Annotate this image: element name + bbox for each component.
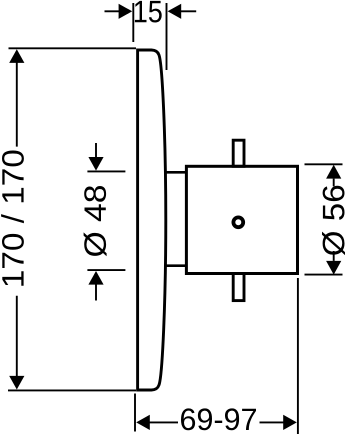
dimension 15: right arrow xyxy=(168,4,197,19)
dimension diameter 48: bottom tick xyxy=(87,269,125,271)
dimension 15: left extension line xyxy=(132,3,134,42)
handle set screw xyxy=(233,217,243,227)
dimension 15: right extension line xyxy=(166,3,168,70)
dimension 69-97: left arrow with line xyxy=(136,415,178,430)
dimension 69-97: right arrow with line xyxy=(260,415,297,430)
sleeve bottom line xyxy=(165,264,187,267)
dimension diameter 48: label (rotated) xyxy=(84,186,107,256)
dimension diameter 56: label (rotated) xyxy=(322,186,345,255)
handle top tab xyxy=(233,140,244,166)
dimension 69-97: right extension line xyxy=(297,278,299,434)
escutcheon plate (side profile) xyxy=(138,50,166,390)
dimension diameter 56: bottom tick xyxy=(305,274,343,276)
dimension 170/170: bottom extension line xyxy=(8,389,136,391)
dimension diameter 48: top tick xyxy=(87,170,125,172)
dimension diameter 56: top arrow (pointing up) with tail xyxy=(326,165,341,187)
dimension 170/170: label (rotated) xyxy=(1,151,24,286)
handle square body xyxy=(186,166,297,273)
dimension diameter 48: bottom arrow (pointing up) xyxy=(88,271,103,301)
dimension 170/170: dimension line upper segment with arrow xyxy=(9,49,24,146)
dimension 15: left arrow xyxy=(105,4,133,19)
handle bottom tab xyxy=(233,274,244,301)
dimension diameter 56: bottom arrow (pointing down) with tail xyxy=(326,251,341,275)
dimension 15: label xyxy=(135,1,162,23)
dimension 170/170: top extension line xyxy=(9,47,137,49)
dimension 69-97: left extension line xyxy=(134,394,136,432)
dimension 170/170: dimension line lower segment with arrow xyxy=(9,296,24,390)
dimension diameter 56: top tick xyxy=(305,163,343,165)
sleeve top line xyxy=(165,171,187,174)
dimension diameter 48: top arrow (pointing down) xyxy=(88,143,103,171)
dimension 69-97: label xyxy=(181,408,256,430)
